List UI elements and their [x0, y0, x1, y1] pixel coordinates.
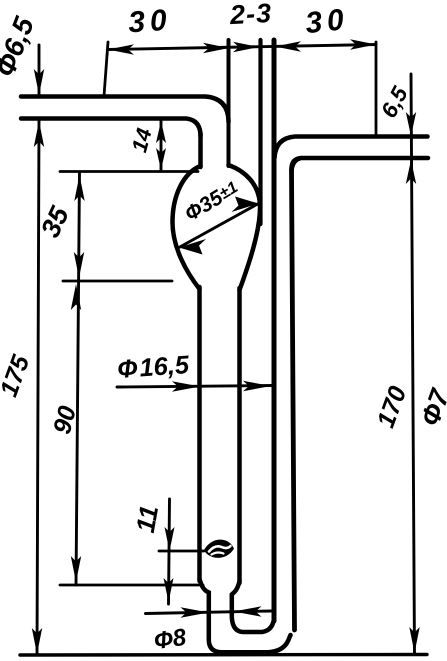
extension tick y=585: [60, 584, 203, 587]
extension tick y=281: [63, 280, 172, 283]
svg-text:30: 30: [304, 3, 351, 40]
dimension line: phi16.5 horizontal: [117, 386, 272, 388]
bottom extension line: [20, 653, 427, 657]
dimension line: 6.5 and 170 vertical at right: [411, 74, 415, 654]
arrowhead 175 bottom (down): [32, 628, 42, 654]
arrowhead 35 top (up): [74, 175, 84, 201]
arrowhead 11 upper (down): [165, 527, 175, 551]
extension line x=376: [375, 42, 378, 137]
tube wall: top-left tube bottom wall: [21, 119, 201, 137]
svg-text:2-3: 2-3: [228, 0, 273, 30]
tube wall: top-right tube top wall with outer corner: [275, 137, 428, 159]
arrowhead phi16.5 right (right): [243, 381, 271, 391]
tube wall: top-left tube top wall: [21, 97, 229, 123]
tube wall: neck left wall above bulb: [198, 133, 203, 167]
extension tick y=551: [159, 550, 204, 553]
tube wall: right shoulder, narrow tube right wall and inner U-bend: [232, 581, 274, 632]
arrowhead phi8 right (left): [234, 606, 262, 616]
tube wall: outer bend vertical + extension line x=228.5: [227, 40, 231, 166]
arrowhead 170 bottom (down): [409, 627, 419, 653]
dimension line: 14 vertical: [160, 119, 163, 171]
tube wall: wide tube right wall: [237, 288, 242, 583]
svg-text:11: 11: [130, 503, 164, 535]
constriction lens (filled) in wide tube: [204, 540, 234, 558]
svg-text:30: 30: [127, 4, 173, 40]
arrowhead 30-left right tip: [203, 43, 229, 53]
dimension line: 11 vertical: [169, 499, 170, 604]
arrowhead 11 lower (down): [164, 578, 174, 602]
tube wall: capillary left wall x=260.5: [258, 40, 262, 224]
arrowhead phi8 left (right): [181, 607, 209, 617]
dimension line: top horizontal (30 / 2-3 / 30): [108, 45, 376, 50]
tube wall: top-right tube bottom wall: [292, 158, 429, 171]
tube wall: right tube right wall: [292, 159, 300, 631]
arrowhead 35 bottom (down): [74, 252, 84, 278]
arrowhead phi16.5 left (right): [172, 381, 200, 391]
constriction white squiggle 1: [209, 546, 231, 552]
constriction white squiggle 2: [212, 552, 224, 554]
arrowhead 6.5-right top (down): [406, 112, 416, 136]
arrowhead phi35 lower-left: [179, 239, 206, 255]
svg-text:Ф8: Ф8: [152, 624, 188, 655]
bulb left edge: [173, 166, 201, 289]
arrowhead 2-3 left tip: [233, 42, 259, 52]
dimension line: phi6.5 and 175 vertical at left: [37, 45, 39, 654]
dimension line: phi8 horizontal: [146, 611, 272, 614]
dimension shaft: phi35 diagonal: [179, 204, 259, 248]
svg-text:Ф 16,5: Ф 16,5: [116, 351, 190, 384]
tube wall: capillary right / right tube left wall x=274: [272, 40, 277, 621]
arrowhead phi6.5 top (down): [34, 69, 44, 95]
arrowhead 90 bottom (down): [71, 556, 81, 582]
tube wall: wide tube left wall: [197, 287, 202, 581]
extension tick y=171.5: [60, 170, 198, 173]
arrowhead phi6.5 bottom / 175 top (up): [34, 121, 44, 147]
arrowhead 14 top (up): [156, 121, 166, 143]
tube wall: left shoulder, narrow tube left wall and outer U-bend: [200, 579, 291, 652]
arrowhead 90 top (up): [71, 284, 81, 310]
arrowhead 14 bottom (down): [156, 148, 166, 170]
arrowhead 30-left left tip: [108, 44, 134, 54]
extension line x=108: [104, 42, 108, 96]
arrowhead 2-3 right tip: [275, 41, 301, 51]
arrowhead 30-right tip: [350, 39, 376, 49]
dimension line: 35/90 vertical: [76, 172, 80, 585]
arrowhead 6.5-right bottom / 170 top (up): [406, 160, 416, 184]
bulb right edge: [229, 165, 261, 290]
arrowhead phi35 upper-right: [232, 197, 259, 213]
